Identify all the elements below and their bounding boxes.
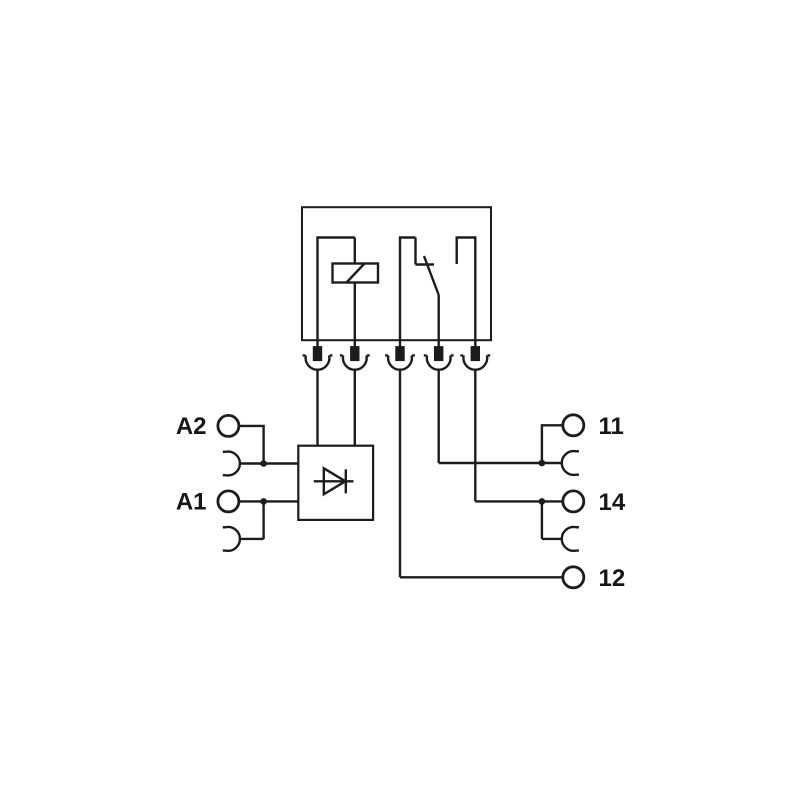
- wire: junction 14 to socket: [542, 538, 562, 540]
- svg-text:A1: A1: [176, 489, 207, 516]
- wire: coil branch left vertical (pin 1 up): [316, 238, 318, 348]
- socket 1: [303, 355, 333, 369]
- diode module box: [298, 446, 373, 520]
- wire: pin 2 to diode module: [354, 370, 356, 446]
- socket 5: [460, 355, 490, 369]
- plug pin 5: [472, 347, 479, 360]
- wire: pin 1 to diode module: [316, 370, 318, 446]
- terminal 11 circle: [563, 415, 584, 436]
- wire: pin 3 down: [399, 370, 401, 577]
- wire: contact common vertical (pin 3 up): [399, 238, 401, 348]
- socket 2: [340, 355, 370, 369]
- contact moving arm: [424, 256, 439, 295]
- wire: contact top horizontal: [399, 236, 416, 238]
- svg-text:12: 12: [599, 565, 626, 592]
- relay module outline: [302, 207, 491, 340]
- wire: coil branch top horizontal: [316, 236, 354, 238]
- wire: junction 14 down to socket level: [541, 501, 543, 539]
- wire: terminal 11 to junction: [542, 425, 563, 463]
- terminal 12 circle: [563, 567, 584, 588]
- wire: pin 5 to terminal 14: [475, 500, 563, 502]
- socket below 11: [562, 451, 579, 475]
- plug pin 2: [351, 347, 358, 360]
- terminal A1 circle: [218, 491, 239, 512]
- relay coil K1: [333, 264, 379, 283]
- socket 3: [385, 355, 415, 369]
- wire: coil top lead: [354, 238, 356, 264]
- socket below A2: [223, 452, 240, 476]
- wire: arm to pin 4: [438, 295, 440, 348]
- wire: pin 5 down: [474, 370, 476, 501]
- diode D1: [314, 468, 354, 494]
- junction dot 14: [539, 498, 546, 505]
- svg-text:11: 11: [599, 413, 624, 440]
- wire: A2 circle to junction: [239, 426, 264, 464]
- wire: pin 4 to socket 11: [439, 462, 562, 464]
- wire: coil bottom lead (to pin 2): [354, 283, 356, 348]
- wire: NC stub: [456, 236, 458, 264]
- wire: contact fixed lead: [414, 238, 416, 265]
- terminal 14 circle: [563, 491, 584, 512]
- plug pin 1: [314, 347, 321, 360]
- junction dot A1: [260, 498, 267, 505]
- junction dot A2: [260, 460, 267, 467]
- contact fixed bar: [416, 263, 435, 265]
- plug pin 3: [397, 347, 404, 360]
- wire: pin 3 to terminal 12: [400, 576, 563, 578]
- svg-text:A2: A2: [176, 413, 207, 440]
- wire: pin 5 vertical: [474, 236, 476, 347]
- junction dot 11: [539, 460, 546, 467]
- wire: NC hook horizontal: [457, 236, 476, 238]
- plug pin 4: [435, 347, 442, 360]
- wire: socket A2 to diode module: [240, 462, 298, 464]
- wire: pin 4 down: [438, 370, 440, 463]
- terminal A2 circle: [218, 415, 239, 436]
- wire: A1 circle to diode module: [239, 500, 298, 502]
- wire: junction A1 down to socket level: [262, 501, 264, 539]
- wire: socket A1 to junction: [240, 538, 263, 540]
- socket below 14: [562, 527, 579, 551]
- svg-text:14: 14: [599, 489, 626, 516]
- socket 4: [424, 355, 454, 369]
- socket below A1: [223, 527, 240, 551]
